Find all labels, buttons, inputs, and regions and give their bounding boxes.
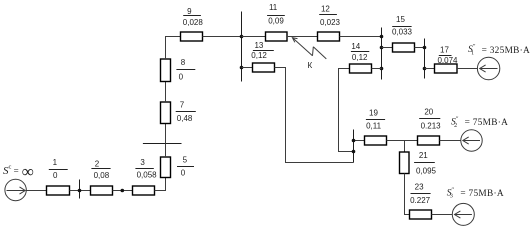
element 11 (reactance box) — [266, 32, 288, 41]
wire bus 2 to element 15 — [382, 47, 393, 49]
wire element 12 to bus 2 — [340, 36, 382, 38]
svg-text:0,12: 0,12 — [352, 53, 368, 62]
svg-text:20: 20 — [424, 108, 433, 117]
svg-text:21: 21 — [419, 151, 428, 160]
svg-text:0,08: 0,08 — [94, 171, 110, 180]
junction dot — [352, 150, 356, 154]
junction dot — [380, 67, 384, 71]
element 19 (reactance box) — [365, 136, 387, 145]
wire bus 1 to element 11 — [242, 36, 266, 38]
generator G3 — [452, 203, 474, 225]
junction dot — [423, 46, 427, 50]
label 20/0.213 — [419, 108, 441, 131]
svg-text:0: 0 — [179, 72, 184, 81]
wire element 11 to element 12 — [287, 36, 318, 38]
svg-text:К: К — [307, 61, 312, 70]
svg-text:23: 23 — [415, 182, 424, 191]
svg-text:7: 7 — [180, 100, 185, 109]
wire element 14 left leg down to bus 3 — [339, 69, 354, 152]
svg-text:9: 9 — [187, 7, 192, 16]
svg-text:3: 3 — [140, 158, 145, 167]
svg-text:1: 1 — [53, 158, 58, 167]
wire element 17 to generator G1 — [457, 68, 478, 70]
wire element 3 up to element 5 — [155, 178, 166, 191]
element 12 (reactance box) — [318, 32, 340, 41]
generator G2 — [461, 130, 482, 151]
svg-text:14: 14 — [351, 42, 360, 51]
label 12/0,023 — [319, 4, 340, 26]
junction dot — [240, 35, 244, 39]
junction dot — [352, 139, 356, 143]
wire gen0 to element 1 — [26, 190, 46, 192]
wire element 19 to element 20 — [387, 140, 418, 142]
bus node B5 (vertical tick) — [79, 180, 81, 199]
bus node 4 (vertical) — [424, 39, 426, 79]
svg-text:0,11: 0,11 — [366, 122, 382, 131]
label 9/0,028 — [183, 7, 204, 27]
junction dot — [121, 189, 125, 193]
element 17 (reactance box) — [435, 64, 458, 73]
svg-text:17: 17 — [440, 45, 449, 54]
element 5 (vertical reactance box) — [161, 157, 171, 178]
element 7 (vertical reactance box) — [161, 102, 171, 124]
element 23 (reactance box) — [410, 210, 432, 219]
label 17/0.074 — [437, 45, 458, 65]
element 3 (reactance box) — [133, 186, 155, 195]
svg-text:13: 13 — [254, 41, 263, 50]
label 5/0 — [177, 155, 194, 177]
svg-text:5: 5 — [183, 155, 188, 164]
bus node 2 (vertical) — [381, 28, 383, 80]
wire element 2 to element 3 — [113, 190, 133, 192]
wire element 23 to generator G3 — [432, 214, 453, 216]
wire bus 1 to element 13 — [242, 67, 253, 69]
svg-text:0,09: 0,09 — [268, 17, 284, 26]
bus node 3 (vertical) — [353, 130, 355, 163]
wire element 8 up and right to element 9 — [166, 37, 181, 60]
element 21 (vertical reactance box) — [400, 152, 410, 174]
wire bus 4 to element 17 — [425, 68, 435, 70]
svg-text:19: 19 — [369, 109, 378, 118]
junction dot — [78, 189, 82, 193]
svg-text:0.074: 0.074 — [437, 56, 458, 65]
svg-text:0.227: 0.227 — [410, 196, 431, 205]
wire element 5 to bus bar — [165, 144, 167, 158]
label 14/0,12 — [351, 42, 369, 62]
junction dot — [423, 67, 427, 71]
svg-text:0.213: 0.213 — [421, 121, 442, 130]
label 2/0,08 — [91, 160, 110, 180]
junction dot — [380, 46, 384, 50]
svg-text:0,12: 0,12 — [251, 51, 267, 60]
bus node (horizontal bar) — [143, 143, 182, 145]
svg-text:0: 0 — [181, 169, 186, 178]
wire T-branch down from row 19-20 to element 21 — [404, 141, 406, 153]
element 15 (reactance box) — [393, 43, 415, 52]
svg-text:0,023: 0,023 — [320, 18, 341, 27]
svg-text:11: 11 — [269, 3, 278, 12]
generator G0 (system source, left) — [5, 179, 26, 200]
wire bus 3 to element 19 — [354, 140, 365, 142]
junction dot — [380, 35, 384, 39]
svg-text:0,058: 0,058 — [137, 171, 158, 180]
label 19/0,11 — [366, 109, 385, 131]
element 2 (reactance box) — [91, 186, 113, 195]
label 8/0 — [176, 58, 195, 82]
svg-text:12: 12 — [321, 4, 330, 13]
wire bus bar to element 7 — [165, 124, 167, 144]
svg-text:15: 15 — [396, 15, 405, 24]
label 23/0.227 — [410, 182, 431, 205]
label 11/0,09 — [267, 3, 285, 25]
junction dot — [240, 66, 244, 70]
label 13/0,12 — [251, 41, 273, 60]
element 1 (reactance box) — [47, 186, 70, 195]
svg-text:0,48: 0,48 — [177, 114, 193, 123]
element 8 (vertical reactance box) — [161, 59, 171, 82]
label 21/0,095 — [414, 151, 436, 175]
svg-text:0,033: 0,033 — [392, 27, 413, 36]
element 9 (reactance box) — [181, 32, 203, 41]
label 3/0,058 — [135, 158, 157, 180]
wire element 20 to generator G2 — [440, 140, 461, 142]
generator G1 — [477, 57, 499, 79]
wire element 14 to bus 2 — [372, 68, 382, 70]
wire element 9 to bus 1 — [203, 36, 242, 38]
short-circuit marker K (arrow with lightning) — [292, 38, 326, 59]
wire element 1 to element 2 — [70, 190, 91, 192]
label 1/0 — [49, 158, 68, 180]
label 7/0,48 — [176, 100, 196, 122]
bus node 1 (vertical) — [241, 12, 243, 82]
svg-text:0,095: 0,095 — [416, 166, 437, 175]
element 14 (reactance box) — [350, 64, 372, 73]
svg-text:0: 0 — [53, 171, 58, 180]
wire element 21 down and right to element 23 — [405, 174, 410, 215]
wire element 15 to bus 4 — [415, 47, 425, 49]
label 15/0,033 — [392, 15, 413, 37]
svg-text:8: 8 — [181, 58, 186, 67]
wire element 7 to element 8 — [165, 82, 167, 103]
element 13 (reactance box) — [253, 63, 275, 72]
svg-text:0,028: 0,028 — [183, 18, 204, 27]
svg-text:2: 2 — [95, 160, 100, 169]
wire element 13 down and right to bus 3 — [275, 68, 354, 163]
element 20 (reactance box) — [418, 136, 440, 145]
